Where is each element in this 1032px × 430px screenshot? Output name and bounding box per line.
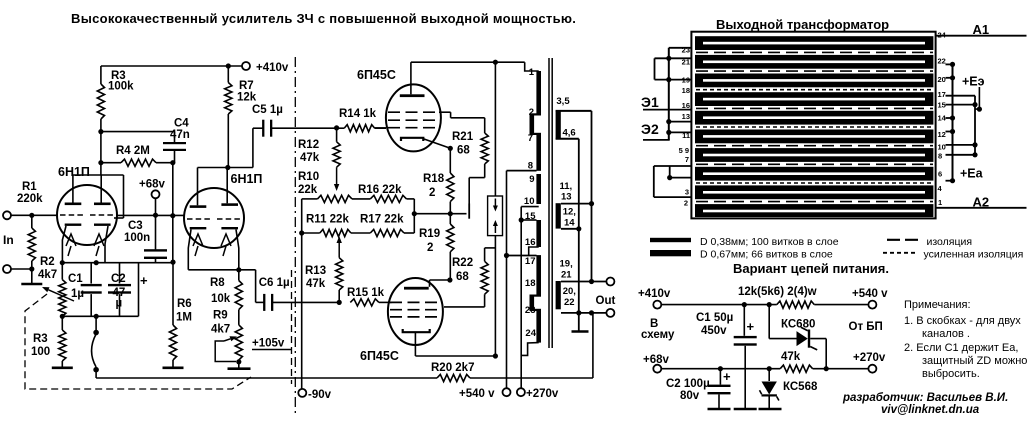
svg-text:2: 2 — [429, 187, 435, 199]
svg-text:R4 2M: R4 2M — [116, 145, 150, 157]
svg-text:6: 6 — [938, 170, 942, 179]
svg-text:19,: 19, — [560, 259, 573, 270]
svg-text:22: 22 — [564, 297, 575, 308]
svg-text:viv@linknet.dn.ua: viv@linknet.dn.ua — [881, 404, 980, 416]
svg-text:4k7: 4k7 — [38, 269, 57, 281]
svg-text:Высококачественный усилитель З: Высококачественный усилитель ЗЧ с повыше… — [71, 11, 576, 26]
svg-text:КС568: КС568 — [783, 381, 818, 393]
svg-text:10k: 10k — [211, 293, 231, 305]
svg-text:схему: схему — [641, 329, 675, 341]
svg-text:12: 12 — [938, 130, 946, 139]
svg-text:23: 23 — [682, 46, 690, 55]
svg-text:R20 2k7: R20 2k7 — [431, 362, 474, 374]
svg-text:1M: 1M — [176, 312, 192, 324]
svg-text:12k(5k6) 2(4)w: 12k(5k6) 2(4)w — [738, 286, 817, 298]
svg-text:23: 23 — [525, 305, 536, 316]
svg-text:А2: А2 — [973, 195, 990, 210]
svg-text:12k: 12k — [237, 92, 257, 104]
svg-text:R6: R6 — [177, 298, 192, 310]
svg-text:6Н1П: 6Н1П — [231, 172, 263, 186]
svg-text:80v: 80v — [680, 390, 700, 402]
svg-text:Вариант цепей питания.: Вариант цепей питания. — [733, 261, 889, 276]
svg-text:47k: 47k — [300, 152, 320, 164]
svg-text:R19: R19 — [419, 228, 440, 240]
svg-text:+270v: +270v — [853, 352, 886, 364]
svg-text:47n: 47n — [170, 129, 190, 141]
svg-text:усиленная изоляция: усиленная изоляция — [924, 249, 1024, 261]
svg-text:220k: 220k — [17, 193, 43, 205]
svg-text:8: 8 — [528, 161, 533, 172]
svg-text:6П45С: 6П45С — [357, 68, 396, 82]
svg-text:Э2: Э2 — [641, 121, 659, 137]
svg-text:1: 1 — [938, 198, 942, 207]
svg-text:C3: C3 — [128, 220, 143, 232]
svg-text:R16 22k: R16 22k — [358, 184, 402, 196]
svg-text:17: 17 — [938, 90, 946, 99]
svg-text:3: 3 — [685, 188, 689, 197]
svg-text:Выходной трансформатор: Выходной трансформатор — [716, 17, 889, 32]
svg-text:R1: R1 — [22, 181, 37, 193]
svg-text:каналов .: каналов . — [922, 328, 970, 340]
svg-text:1: 1 — [529, 67, 535, 78]
svg-text:C1 50µ: C1 50µ — [696, 312, 733, 324]
svg-text:R13: R13 — [305, 265, 326, 277]
svg-text:17: 17 — [525, 256, 536, 267]
svg-text:C5 1µ: C5 1µ — [252, 104, 283, 116]
svg-text:3,5: 3,5 — [556, 96, 570, 107]
svg-text:68: 68 — [456, 271, 469, 283]
svg-text:+410v: +410v — [638, 288, 671, 300]
svg-text:10: 10 — [524, 196, 535, 207]
svg-text:12,: 12, — [563, 207, 576, 218]
svg-text:R10: R10 — [298, 171, 319, 183]
svg-text:От БП: От БП — [849, 321, 883, 333]
svg-text:5 9: 5 9 — [679, 146, 689, 155]
svg-text:16: 16 — [682, 101, 690, 110]
svg-text:11,: 11, — [560, 181, 573, 192]
svg-text:7: 7 — [528, 133, 533, 144]
svg-text:4k7: 4k7 — [211, 324, 230, 336]
svg-text:14: 14 — [938, 114, 947, 123]
svg-text:2: 2 — [529, 107, 534, 118]
svg-text:R21: R21 — [452, 131, 474, 143]
svg-text:47k: 47k — [306, 278, 326, 290]
svg-text:1µ: 1µ — [71, 288, 84, 300]
svg-text:In: In — [3, 233, 14, 247]
svg-text:+: + — [140, 273, 148, 288]
svg-text:+270v: +270v — [526, 388, 559, 400]
svg-text:R2: R2 — [40, 256, 55, 268]
svg-text:R8: R8 — [210, 277, 225, 289]
svg-text:68: 68 — [457, 145, 470, 157]
svg-text:R12: R12 — [298, 139, 319, 151]
svg-text:Out: Out — [596, 295, 616, 307]
svg-text:22: 22 — [938, 57, 946, 66]
svg-text:100k: 100k — [108, 81, 134, 93]
svg-text:14: 14 — [564, 218, 575, 229]
svg-text:C2 100µ: C2 100µ — [666, 378, 710, 390]
svg-text:6Н1П: 6Н1П — [58, 165, 90, 179]
svg-text:КС680: КС680 — [781, 319, 815, 331]
svg-text:+540 v: +540 v — [852, 288, 888, 300]
svg-text:7: 7 — [685, 155, 689, 164]
svg-text:R3: R3 — [33, 333, 48, 345]
svg-text:1. В скобках - для двух: 1. В скобках - для двух — [904, 315, 1021, 327]
svg-text:C2: C2 — [111, 273, 126, 285]
svg-text:18: 18 — [682, 86, 690, 95]
svg-text:+68v: +68v — [139, 179, 166, 191]
svg-text:+: + — [723, 369, 731, 384]
svg-text:16: 16 — [525, 237, 536, 248]
svg-text:100n: 100n — [124, 232, 150, 244]
svg-text:защитный ZD можно: защитный ZD можно — [922, 355, 1027, 367]
svg-text:100: 100 — [31, 346, 50, 358]
svg-text:10: 10 — [938, 143, 946, 152]
svg-text:изоляция: изоляция — [927, 236, 973, 248]
svg-text:21: 21 — [561, 270, 572, 281]
svg-text:13: 13 — [682, 112, 690, 121]
svg-text:20: 20 — [938, 75, 946, 84]
svg-text:47k: 47k — [781, 351, 801, 363]
svg-text:15: 15 — [525, 211, 536, 222]
svg-text:450v: 450v — [701, 325, 727, 337]
svg-text:18: 18 — [525, 278, 536, 289]
svg-text:15: 15 — [938, 101, 946, 110]
svg-text:+105v: +105v — [252, 338, 285, 350]
svg-text:2: 2 — [684, 199, 688, 208]
svg-text:R11 22k: R11 22k — [306, 214, 349, 226]
svg-text:2. Если С1 держит Еа,: 2. Если С1 держит Еа, — [904, 342, 1018, 354]
svg-text:8: 8 — [938, 152, 942, 161]
svg-text:6П45С: 6П45С — [360, 349, 399, 363]
svg-text:R9: R9 — [213, 310, 228, 322]
svg-text:-90v: -90v — [308, 389, 332, 401]
svg-text:+410v: +410v — [256, 62, 289, 74]
svg-text:R22: R22 — [452, 257, 473, 269]
svg-text:разработчик: Васильев В.И.: разработчик: Васильев В.И. — [842, 392, 1008, 404]
svg-text:+: + — [747, 319, 755, 334]
svg-text:4,6: 4,6 — [563, 128, 576, 139]
svg-text:+Еэ: +Еэ — [962, 75, 985, 89]
svg-text:выбросить.: выбросить. — [922, 368, 980, 380]
svg-text:R15 1k: R15 1k — [347, 287, 385, 299]
svg-text:D 0,38мм; 100 витков в слое: D 0,38мм; 100 витков в слое — [700, 236, 839, 248]
svg-text:Примечания:: Примечания: — [904, 299, 971, 311]
svg-text:R14 1k: R14 1k — [339, 108, 377, 120]
svg-text:D 0,67мм; 66 витков в слое: D 0,67мм; 66 витков в слое — [700, 249, 833, 261]
svg-text:R17 22k: R17 22k — [360, 214, 404, 226]
svg-text:Э1: Э1 — [641, 94, 659, 110]
svg-text:9: 9 — [529, 174, 534, 185]
svg-text:2: 2 — [427, 242, 433, 254]
svg-text:+Еа: +Еа — [960, 167, 984, 181]
svg-text:+540 v: +540 v — [459, 388, 495, 400]
svg-text:C6 1µ: C6 1µ — [259, 277, 290, 289]
svg-text:R7: R7 — [239, 80, 254, 92]
svg-text:R18: R18 — [423, 173, 445, 185]
svg-text:22k: 22k — [298, 184, 318, 196]
svg-text:24: 24 — [525, 328, 536, 339]
svg-text:20,: 20, — [563, 286, 576, 297]
svg-text:А1: А1 — [973, 22, 990, 37]
svg-text:13: 13 — [561, 192, 572, 203]
svg-text:µ: µ — [116, 298, 123, 310]
svg-text:C4: C4 — [174, 118, 189, 130]
svg-text:C1: C1 — [68, 273, 83, 285]
